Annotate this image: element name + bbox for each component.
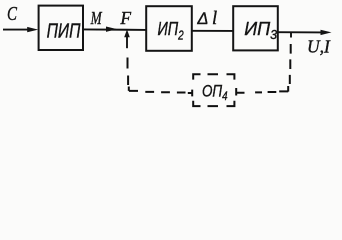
block PIP (box U1) — [39, 6, 83, 50]
arrowhead feedback up into node F — [124, 29, 130, 37]
block IP2 (box U2) — [146, 6, 192, 51]
svg-text:Δ: Δ — [196, 10, 208, 28]
arrowhead M to F — [106, 27, 117, 32]
svg-text:ОП4: ОП4 — [202, 82, 228, 103]
wire dashed vertical right (tap down from output) — [288, 44, 291, 92]
svg-text:l: l — [212, 9, 217, 29]
wire dashed horizontal right (OP4 to riser) — [236, 88, 288, 96]
wire IP2 to IP3 — [192, 30, 233, 32]
wire dashed horizontal left (to OP4) — [145, 90, 192, 97]
svg-text:ИП3: ИП3 — [244, 19, 277, 42]
svg-text:ИП2: ИП2 — [158, 19, 184, 42]
wire tap tick on output — [290, 32, 292, 37]
wire PIP to IP2 — [83, 28, 146, 31]
wire dashed vertical left (feedback riser to F) — [127, 58, 130, 86]
arrowhead input — [27, 27, 38, 32]
wire output — [278, 31, 324, 33]
arrowhead output — [321, 30, 332, 35]
wire input C — [3, 29, 30, 31]
svg-text:ПИП: ПИП — [47, 21, 81, 43]
block IP3 (box U3) — [233, 6, 278, 50]
svg-text:M: M — [90, 8, 103, 28]
wire dashed corner bottom-left — [129, 87, 138, 91]
wire feedback arrow shaft — [126, 35, 128, 48]
svg-text:C: C — [7, 3, 17, 25]
svg-text:U,I: U,I — [307, 37, 331, 57]
svg-text:F: F — [119, 8, 131, 28]
block OP4 dashed box — [193, 74, 234, 106]
